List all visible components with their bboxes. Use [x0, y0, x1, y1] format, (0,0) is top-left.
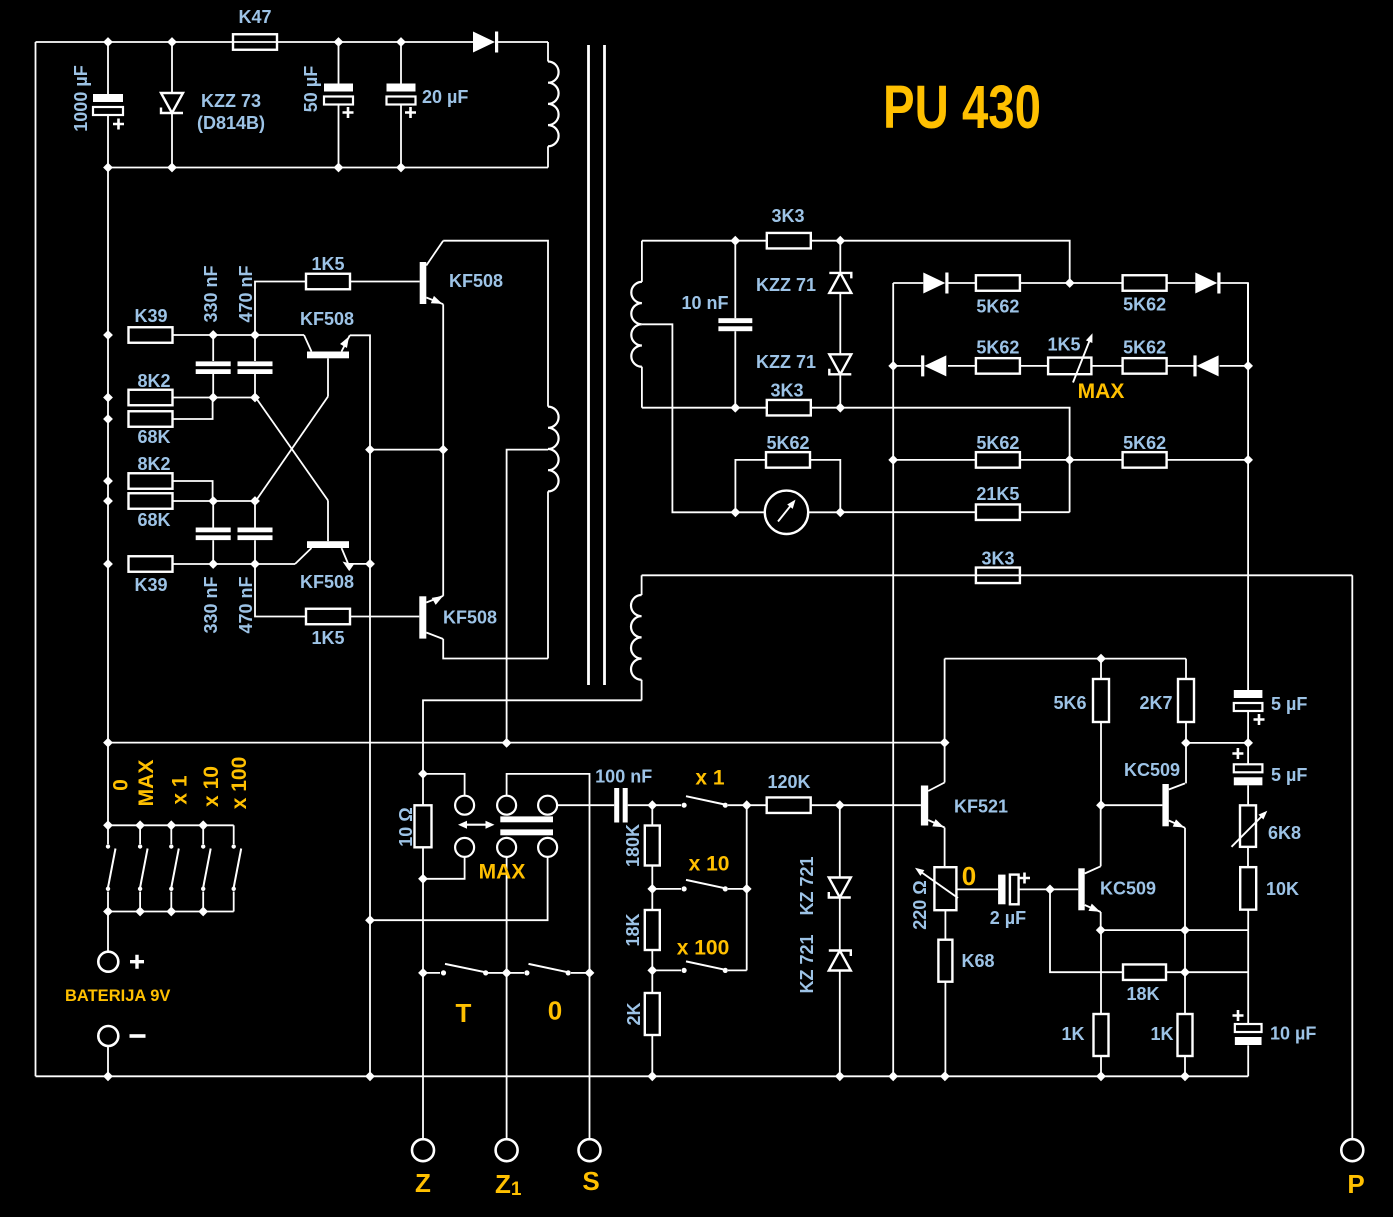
- transformer core line 1: [587, 45, 590, 685]
- node ground/1K right: [1180, 1071, 1190, 1081]
- svg-text:KZZ 73: KZZ 73: [201, 91, 261, 111]
- svg-text:5K62: 5K62: [976, 297, 1019, 317]
- wire: 21K5 row: [840, 511, 976, 513]
- svg-text:20 µF: 20 µF: [422, 87, 468, 107]
- svg-text:x 100: x 100: [228, 757, 251, 810]
- resistor 68K bottom: [129, 493, 173, 509]
- capacitor 5uF upper: [1234, 690, 1263, 698]
- wire: KC509 lower emitter down: [1100, 912, 1102, 930]
- svg-text:P: P: [1347, 1169, 1364, 1199]
- wire: 1K5 top to Q1 base: [350, 281, 420, 283]
- svg-text:1000 µF: 1000 µF: [71, 65, 91, 131]
- wire: cross coupling diagonal D1: [256, 398, 328, 501]
- svg-text:S: S: [582, 1166, 599, 1196]
- node row D2/470nF: [250, 496, 260, 506]
- switch bank column 5: [232, 844, 236, 848]
- node row E/330nF: [208, 559, 218, 569]
- wire: TR contact to 100nF: [557, 804, 614, 806]
- node x1 right: [742, 800, 752, 810]
- node ground/bridge rail: [888, 1071, 898, 1081]
- capacitor MAX trimmer: [500, 816, 553, 822]
- wire: switch bank top bus: [108, 824, 234, 826]
- potentiometer 6K8: [1240, 805, 1256, 847]
- wire: 68K top to row C: [173, 398, 213, 420]
- svg-text:5K62: 5K62: [976, 338, 1019, 358]
- node ground/emitter rail: [365, 1071, 375, 1081]
- wire: 0V bus of power section: [108, 167, 548, 169]
- svg-text:10K: 10K: [1266, 879, 1299, 899]
- wire: bottom ground rail: [36, 1075, 1249, 1077]
- node row C/470nF: [250, 393, 260, 403]
- transistor Q1 KF508 top right: [420, 262, 427, 304]
- svg-text:KF521: KF521: [954, 797, 1008, 817]
- node 10ohm bottom: [418, 874, 428, 884]
- wire: 10uF branch vertical: [1247, 930, 1249, 1024]
- svg-text:0: 0: [548, 996, 562, 1026]
- wire: KF521 emitter to pot: [944, 828, 946, 868]
- wire: secondary center tap to meter: [642, 324, 736, 512]
- switch bank column 1: [107, 825, 109, 844]
- node top bus / KZZ73: [167, 37, 177, 47]
- svg-text:x 1: x 1: [695, 767, 725, 790]
- switch T: [423, 972, 440, 974]
- svg-text:68K: 68K: [137, 427, 170, 447]
- svg-text:330 nF: 330 nF: [201, 265, 221, 322]
- wire: 18K node to 10uF branch: [1185, 971, 1248, 973]
- wire: row D2 base lower: [173, 500, 256, 502]
- node emitter row right: [1180, 925, 1190, 935]
- svg-text:2K7: 2K7: [1139, 693, 1172, 713]
- wire: feedback node drop: [1050, 889, 1123, 972]
- wire: Q4 collector to winding bottom: [443, 639, 548, 659]
- svg-text:5K62: 5K62: [766, 433, 809, 453]
- svg-text:x 1: x 1: [169, 775, 192, 805]
- resistor K39 bottom: [129, 556, 173, 572]
- switch contact TL: [455, 796, 474, 815]
- node emitter rail lower: [365, 559, 375, 569]
- svg-text:5K62: 5K62: [1123, 295, 1166, 315]
- transistor KC509 upper: [1162, 784, 1168, 826]
- node bank bot 4: [198, 907, 208, 917]
- capacitor 330nF top: [212, 335, 214, 361]
- diode bridge row2 right: [1197, 355, 1219, 376]
- transistor Q3 KF508 lower middle: [307, 541, 349, 548]
- diode bridge row1 left: [923, 273, 945, 294]
- node 0V/KZZ73: [167, 163, 177, 173]
- wire: secondary bottom bus: [642, 407, 767, 409]
- switch 0: [510, 972, 524, 974]
- svg-text:50 µF: 50 µF: [301, 66, 321, 112]
- wire: right rail down to 5uF: [1247, 283, 1249, 690]
- svg-text:KZZ 71: KZZ 71: [756, 352, 816, 372]
- wire: emitter row: [1101, 929, 1249, 931]
- svg-text:0: 0: [110, 779, 133, 791]
- inductor: transformer secondary bottom winding: [641, 575, 643, 595]
- resistor 5K62 row3 left: [976, 452, 1020, 468]
- wire: 100nF to node: [628, 804, 653, 806]
- wire: bridge left rail: [892, 283, 894, 1076]
- node bank top 3: [166, 820, 176, 830]
- wire: shunt left stub: [735, 460, 766, 512]
- wire: Q3 emitter to rail x=370: [348, 563, 370, 565]
- node row2 left: [888, 361, 898, 371]
- resistor 3K3 mid: [976, 568, 1020, 584]
- resistor 21K5: [976, 504, 1020, 520]
- zener diode KZZ 71 upper: [839, 241, 841, 273]
- node bank bot 3: [166, 907, 176, 917]
- svg-text:0: 0: [962, 861, 976, 891]
- node 18K right: [1180, 967, 1190, 977]
- svg-text:K68: K68: [961, 951, 994, 971]
- node row3 center: [1065, 455, 1075, 465]
- wire: BR lead to emitter rail: [370, 857, 548, 920]
- node T/0 middle: [502, 968, 512, 978]
- capacitor 100nF: [614, 788, 619, 823]
- resistor 2K: [645, 993, 660, 1035]
- switch contact BR: [538, 838, 557, 857]
- node row2 right: [1243, 361, 1253, 371]
- resistor 5K62 row1 left: [976, 275, 1020, 291]
- node rail/K39 top: [103, 330, 113, 340]
- node 0V/50uF: [334, 163, 344, 173]
- arrow: trimmer double arrow: [462, 824, 491, 826]
- resistor 5K62 row1 right: [1123, 275, 1167, 291]
- node zener chain bottom: [835, 403, 845, 413]
- node rail/8K2 top: [103, 393, 113, 403]
- svg-text:KC509: KC509: [1124, 760, 1180, 780]
- resistor K68: [944, 910, 946, 940]
- diode bridge row1 right: [1195, 273, 1217, 294]
- wire: row B collector upper: [173, 334, 305, 336]
- svg-text:1K: 1K: [1061, 1024, 1084, 1044]
- node row E/470nF: [250, 559, 260, 569]
- switch x1: [652, 804, 681, 806]
- wire: emitter rail jumper to x=443: [370, 449, 443, 451]
- svg-text:1K: 1K: [1150, 1024, 1173, 1044]
- svg-text:KZZ 71: KZZ 71: [756, 275, 816, 295]
- switch x10: [652, 888, 681, 890]
- svg-text:220 Ω: 220 Ω: [910, 880, 930, 929]
- wire: row E collector lower: [173, 563, 296, 565]
- node rail/68K top: [103, 414, 113, 424]
- wire: KC509 upper collector: [1185, 743, 1187, 784]
- svg-text:KF508: KF508: [300, 309, 354, 329]
- wire: 3K3 top to bridge: [811, 241, 1070, 283]
- svg-text:x 10: x 10: [200, 766, 223, 807]
- node 2uF right: [1045, 885, 1055, 895]
- wire: Q1 emitter rail x=443: [442, 304, 444, 596]
- svg-text:3K3: 3K3: [770, 381, 803, 401]
- node BR to rail: [365, 915, 375, 925]
- svg-text:470 nF: 470 nF: [236, 265, 256, 322]
- node row3 left: [888, 455, 898, 465]
- potentiometer 220 ohm: [934, 867, 956, 910]
- switch bank column 2: [139, 825, 141, 844]
- inductor: transformer secondary top winding: [641, 241, 643, 282]
- capacitor 330nF bottom: [212, 501, 214, 528]
- resistor 18K feedback: [1123, 964, 1166, 980]
- node meter right: [835, 507, 845, 517]
- node wire1 KF521 collector: [940, 738, 950, 748]
- node row D2/330nF: [208, 496, 218, 506]
- terminal S: [589, 973, 591, 1139]
- capacitor 10nF: [734, 241, 736, 319]
- node emitter rail upper: [365, 445, 375, 455]
- resistor 5K62 row2 right: [1123, 358, 1167, 374]
- resistor 8K2 bottom: [129, 473, 173, 489]
- wire: KC509 lower collector up: [1100, 805, 1102, 866]
- node top bus / 20uF: [396, 37, 406, 47]
- svg-text:PU 430: PU 430: [883, 73, 1041, 141]
- svg-text:10 nF: 10 nF: [681, 293, 728, 313]
- node rail/68K bottom: [103, 496, 113, 506]
- svg-text:120K: 120K: [767, 772, 810, 792]
- wire: bridge row2 left: [893, 365, 921, 367]
- node row B/330nF: [208, 330, 218, 340]
- zener diode KZZ 71 lower: [829, 354, 851, 374]
- svg-text:KC509: KC509: [1100, 879, 1156, 899]
- node ground/KZ721: [835, 1071, 845, 1081]
- svg-text:MAX: MAX: [479, 861, 526, 884]
- transistor KC509 lower: [1078, 868, 1084, 910]
- svg-text:180K: 180K: [623, 824, 643, 867]
- svg-text:5K6: 5K6: [1053, 693, 1086, 713]
- node 0V/20uF: [396, 163, 406, 173]
- svg-text:KF508: KF508: [443, 608, 497, 628]
- resistor 3K3 top: [767, 233, 811, 249]
- capacitor 470nF bottom: [254, 501, 256, 528]
- resistor 180K: [651, 805, 653, 825]
- svg-text:KZ 721: KZ 721: [797, 934, 817, 993]
- wire: shunt right stub: [810, 460, 840, 512]
- wire: lower secondary to 10ohm branch: [423, 700, 642, 774]
- wire: 8K2 bottom to row D2: [173, 481, 213, 501]
- svg-text:K47: K47: [238, 7, 271, 27]
- capacitor 50uF: [338, 42, 340, 84]
- switch bank column 4: [202, 825, 204, 844]
- svg-text:x 10: x 10: [689, 853, 730, 876]
- wire: cross coupling diagonal D2: [256, 397, 328, 502]
- transistor Q4 KF508 bottom right: [419, 596, 426, 638]
- wire: KC509 upper emitter down: [1184, 828, 1186, 930]
- svg-text:K39: K39: [134, 575, 167, 595]
- node 3K3 top / zener chain: [835, 236, 845, 246]
- svg-text:68K: 68K: [137, 510, 170, 530]
- svg-text:2K: 2K: [624, 1002, 644, 1025]
- svg-text:5 µF: 5 µF: [1271, 765, 1307, 785]
- svg-text:5 µF: 5 µF: [1271, 694, 1307, 714]
- wire: row C base upper: [173, 397, 256, 399]
- resistor 10K: [1247, 847, 1249, 867]
- node top bus / 50uF: [334, 37, 344, 47]
- switch contact BM: [497, 838, 516, 857]
- node 10nF bottom: [730, 403, 740, 413]
- node 2K bottom: [647, 1071, 657, 1081]
- node x10 right: [742, 884, 752, 894]
- switch contact TM: [497, 796, 516, 815]
- node 2K7 bottom: [1181, 738, 1191, 748]
- svg-text:KF508: KF508: [449, 271, 503, 291]
- wire: 1K5 bottom left lead: [255, 564, 306, 617]
- diode bridge row2 left: [924, 355, 946, 376]
- resistor 1K left: [1100, 930, 1102, 1014]
- transistor Q2 KF508 upper middle: [307, 352, 349, 359]
- zener diode KZ 721 lower: [839, 898, 841, 951]
- wire: bridge row3: [893, 459, 976, 461]
- inductor: transformer primary middle winding: [548, 407, 559, 492]
- node ground/battery: [103, 1071, 113, 1081]
- meter M: [765, 491, 808, 534]
- svg-text:MAX: MAX: [1078, 380, 1125, 403]
- transistor KF521: [921, 786, 928, 826]
- zener diode KZZ 73 (D814B): [171, 42, 173, 93]
- capacitor 2uF: [956, 888, 998, 890]
- resistor 120K: [767, 797, 811, 813]
- resistor 8K2 top: [129, 390, 173, 406]
- svg-text:K39: K39: [134, 306, 167, 326]
- wire: x=1185 down to 1K: [1184, 930, 1186, 1014]
- wire: base line to KF521: [840, 804, 921, 806]
- node top bus / 1000uF: [103, 37, 113, 47]
- node bank top 1: [103, 820, 113, 830]
- resistor K47: [233, 34, 277, 50]
- svg-text:1K5: 1K5: [311, 254, 344, 274]
- svg-text:21K5: 21K5: [976, 484, 1019, 504]
- svg-text:5K62: 5K62: [1123, 338, 1166, 358]
- wire: left battery rail: [35, 42, 37, 1076]
- svg-text:KF508: KF508: [300, 572, 354, 592]
- node 0 right: [585, 968, 595, 978]
- wire: amp top bus: [945, 658, 1186, 660]
- wire: P drop to terminal: [1351, 575, 1353, 1139]
- resistor 1K5 bottom: [306, 609, 350, 625]
- svg-text:3K3: 3K3: [771, 206, 804, 226]
- diode D1 rectifier top: [473, 32, 495, 53]
- node rail/8K2 bottom: [103, 476, 113, 486]
- svg-text:10 µF: 10 µF: [1270, 1024, 1316, 1044]
- svg-text:5K62: 5K62: [976, 433, 1019, 453]
- wire: +9V top bus: [36, 41, 474, 43]
- terminal P: [1341, 1139, 1363, 1161]
- node rail/K39 bottom: [103, 559, 113, 569]
- node 10ohm top: [418, 769, 428, 779]
- node ground/1K left: [1096, 1071, 1106, 1081]
- switch contact BL: [455, 838, 474, 857]
- svg-text:18K: 18K: [623, 913, 643, 946]
- svg-text:KZ 721: KZ 721: [797, 856, 817, 915]
- node divider top: [647, 800, 657, 810]
- node row1 center: [1065, 278, 1075, 288]
- wire: bridge row1: [893, 282, 923, 284]
- resistor 1K right: [1178, 1014, 1193, 1056]
- terminal Z: [412, 1139, 434, 1161]
- wire: 3K3 bottom row to pot corner: [811, 408, 1070, 513]
- node T left: [418, 968, 428, 978]
- wire: BM lead down: [506, 857, 508, 973]
- node 5uF junction: [1243, 738, 1253, 748]
- svg-text:18K: 18K: [1126, 984, 1159, 1004]
- svg-text:x 100: x 100: [677, 937, 730, 960]
- transformer core line 2: [603, 45, 606, 685]
- svg-text:1K5: 1K5: [1047, 335, 1080, 355]
- wire: Z drop: [422, 879, 424, 1139]
- svg-text:2 µF: 2 µF: [990, 908, 1026, 928]
- node bank bot 1: [103, 907, 113, 917]
- wire: battery - to ground rail: [107, 1046, 109, 1076]
- resistor 1K5 top: [306, 274, 350, 290]
- svg-text:(D814B): (D814B): [197, 113, 265, 133]
- svg-text:330 nF: 330 nF: [201, 576, 221, 633]
- resistor 3K3 bottom: [767, 400, 811, 416]
- svg-text:470 nF: 470 nF: [236, 576, 256, 633]
- node divider mid: [647, 884, 657, 894]
- resistor 18K divider: [645, 910, 660, 950]
- resistor 68K top: [129, 411, 173, 427]
- svg-text:8K2: 8K2: [137, 371, 170, 391]
- wire: bank to battery +: [107, 912, 109, 952]
- wire: TL contact lead: [423, 774, 465, 796]
- svg-text:Z: Z: [415, 1168, 431, 1198]
- node wire1 left: [103, 738, 113, 748]
- wire: BL lead: [423, 857, 465, 879]
- capacitor 20uF: [400, 42, 402, 84]
- wire: P line from lower secondary: [642, 574, 1353, 576]
- switch bank column 3: [170, 825, 172, 844]
- svg-text:BATERIJA 9V: BATERIJA 9V: [65, 987, 170, 1005]
- wire: Q2 emitter to rail x=370: [350, 335, 370, 1076]
- node bank top 4: [198, 820, 208, 830]
- node emitter row left: [1096, 925, 1106, 935]
- node 5K6 bottom: [1096, 800, 1106, 810]
- svg-text:10 Ω: 10 Ω: [396, 807, 416, 846]
- node wire1 center tap: [502, 738, 512, 748]
- wire: primary center tap: [507, 450, 548, 743]
- svg-text:3K3: 3K3: [981, 549, 1014, 569]
- wire: bank col5 top corner: [233, 825, 235, 844]
- wire: meter leads: [735, 511, 764, 513]
- wire: row1 to right rail: [1220, 283, 1248, 366]
- node meter left: [731, 507, 741, 517]
- inductor: transformer primary top winding: [548, 62, 559, 147]
- wire: top bus right of K47 diode to transformer: [498, 41, 548, 43]
- node row3 right: [1243, 455, 1253, 465]
- svg-text:100 nF: 100 nF: [595, 767, 652, 787]
- switch contact TR: [538, 796, 557, 815]
- svg-text:T: T: [456, 998, 472, 1028]
- wire: bias rail x=108: [107, 168, 109, 826]
- wire: 2K7 node to 5uF junction: [1186, 742, 1248, 744]
- wire: secondary top terminal bus: [642, 240, 767, 242]
- resistor 10 ohm: [422, 774, 424, 805]
- svg-text:1K5: 1K5: [311, 628, 344, 648]
- node amp bus 5K6: [1096, 654, 1106, 664]
- capacitor 1000uF: [107, 42, 109, 94]
- wire: switch bank bottom bus: [108, 911, 234, 913]
- svg-text:6K8: 6K8: [1268, 823, 1301, 843]
- resistor 5K62 meter shunt: [766, 452, 810, 468]
- wire: TM lead to S line: [507, 774, 590, 973]
- node bank bot 2: [135, 907, 145, 917]
- node 10nF top: [730, 236, 740, 246]
- node row B/470nF: [250, 330, 260, 340]
- capacitor 10uF: [1235, 1024, 1262, 1032]
- resistor 2K7: [1185, 659, 1187, 679]
- wire: 1K5 top left lead: [255, 282, 306, 336]
- node 120K right: [835, 800, 845, 810]
- node ground/K68: [940, 1071, 950, 1081]
- wire: row2 to right rail: [1220, 365, 1249, 367]
- wire: bank col5 bottom corner: [233, 892, 235, 912]
